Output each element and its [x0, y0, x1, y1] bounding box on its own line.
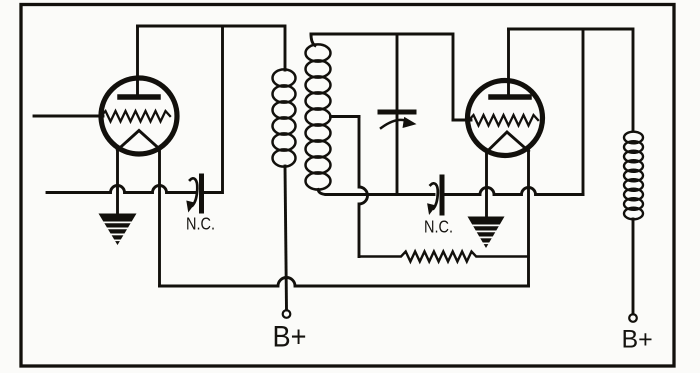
- wire: C3 bottom lead: [396, 116, 399, 195]
- wire: V2 right filament lead down to bus corner: [527, 150, 530, 286]
- V2 plate bar: [491, 94, 529, 100]
- V2 grid zigzag: [469, 115, 538, 126]
- secondary coil L2: [306, 44, 331, 189]
- wire: L2 bottom lead into tank bottom wire: [318, 190, 327, 195]
- B+ terminal (right): [629, 314, 637, 322]
- neutralizing capacitor C2 fixed plate: [440, 177, 445, 213]
- wire: tank top wire to V2 grid riser: [311, 34, 453, 120]
- ground symbol (right): [468, 217, 505, 249]
- svg-text:N.C.: N.C.: [424, 217, 453, 237]
- svg-text:B+: B+: [273, 321, 307, 354]
- triode V2 envelope: [468, 81, 543, 156]
- wire: V2 left filament lead down to ground: [485, 150, 488, 218]
- V1 plate lead: [136, 26, 139, 95]
- primary coil L1: [273, 69, 296, 166]
- svg-text:N.C.: N.C.: [186, 214, 215, 234]
- V2 plate lead: [507, 29, 510, 95]
- label N.C. for C1: [186, 214, 215, 234]
- svg-text:B+: B+: [622, 326, 653, 354]
- wire: C2 fixed plate to neutralizing riser, hops over V2 filament leads: [445, 188, 584, 195]
- C3 stator plate: [380, 110, 414, 115]
- V1 cathode filament V: [118, 131, 160, 151]
- tuning capacitor C3 top lead: [396, 34, 399, 108]
- grid resistor R1: [359, 252, 529, 262]
- label B+ (right): [622, 326, 653, 354]
- wire: neutralizing riser up to V2 plate wire: [582, 29, 585, 195]
- wire: L3 bottom lead to B+ terminal: [632, 219, 635, 314]
- triode V1 envelope: [101, 78, 177, 154]
- C1 curved rotor-plate arrow: [187, 178, 198, 211]
- output choke L3: [624, 132, 643, 220]
- wire: grid input stub of V1: [34, 115, 103, 118]
- wire: B+ bus from V1 filament to V2 filament, hop over B+ lead: [160, 278, 529, 287]
- wire: tap riser hopping over tank bottom wire, down to grid resistor: [359, 117, 368, 257]
- V1 plate bar: [120, 94, 158, 100]
- wire: tank bottom wire to C2 left plate: [326, 193, 434, 196]
- B+ terminal (left): [283, 310, 291, 318]
- V2 cathode filament V: [487, 132, 529, 152]
- V1 grid zigzag: [101, 111, 170, 122]
- label N.C. for C2: [424, 217, 453, 237]
- label B+ (left): [273, 321, 307, 354]
- neutralizing capacitor C1 fixed plate: [199, 176, 204, 211]
- wire: lower input stub to neutralizing capacitor, hops over V1 filament leads: [47, 186, 195, 193]
- wire: L2 center tap: [331, 115, 360, 118]
- wire: V1 plate top wire to primary coil: [138, 26, 286, 70]
- V2 grid lead: [453, 119, 471, 122]
- C2 curved rotor-plate arrow: [428, 183, 438, 214]
- wire: L1 bottom lead down to B+ terminal, crossing bus: [285, 166, 287, 310]
- C3 rotor arrow: [381, 118, 416, 129]
- wire: V1 right filament lead down to B+ bus: [158, 148, 161, 286]
- wire: V1 left filament lead down to ground: [116, 148, 119, 214]
- wire: L2 top lead: [311, 34, 315, 46]
- wire: V2 plate top wire to output choke: [509, 29, 634, 131]
- wire: C1 fixed plate to plate-circuit riser: [204, 27, 223, 193]
- ground symbol (left): [99, 214, 137, 246]
